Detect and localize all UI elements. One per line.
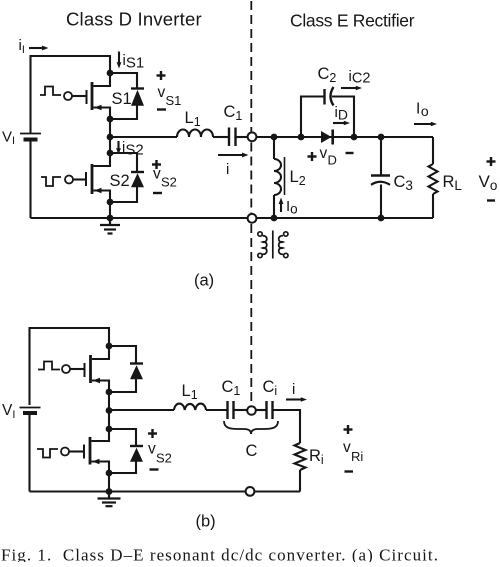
wire: L1 to C1 (b) [206,409,228,411]
arrow Io up (L2) [279,198,284,213]
transformer [258,231,288,259]
node circle: output bottom (a) [248,214,257,223]
wire: Ci to Ri corner (b) [273,410,301,443]
svg-text:v: v [153,166,161,183]
wire: Q1 source to Q2 drain (b) [108,392,110,429]
label Vo [479,172,498,193]
svg-text:i: i [292,381,295,398]
node circle: output top (a) [248,132,257,141]
svg-text:iC2: iC2 [349,68,371,87]
gate circle S1 [64,92,72,100]
svg-text:S1: S1 [166,93,182,108]
label vS1 [158,84,182,108]
label Io (top right) [416,101,429,120]
wire: main output rail (a) [256,136,433,138]
label vS2 [153,166,177,190]
inductor L1 (b) [174,404,206,410]
resistor Ri (b) [295,443,306,492]
label C1 (a) [224,103,243,123]
label vD [320,145,337,168]
node: ground junction (b) [106,488,113,495]
label Ri (b) [309,447,324,467]
wire: S1 source to mid node [109,119,111,153]
wire: bottom rail (b) [30,490,301,492]
gate circle Q1 (b) [62,365,70,373]
body diode of Q2 (b) [109,429,143,473]
brace C (b) [224,421,278,434]
wire: S2 source to ground rail [109,202,111,218]
wire: C2 branch [301,97,354,138]
label (b) [196,513,216,531]
label S1 [112,90,132,108]
diode D [321,130,333,145]
label L1 (a) [185,109,201,129]
label - of vS1 [157,108,166,110]
wire: gate lead S2 [73,178,86,180]
node: Q1 drain (b) [106,343,113,350]
transistor S1 [87,73,111,119]
gate circle S2 [65,176,73,184]
node: Q2 drain (b) [106,426,113,433]
label - of vRi (b) [345,470,354,472]
wire: gate lead Q1 (b) [70,368,85,370]
label i_I [19,37,25,56]
label Io (L2) [286,198,298,217]
node: S1 drain [107,70,114,77]
wire: bottom rail (a) [31,217,434,219]
node: C2 right [351,134,358,141]
svg-text:C: C [246,442,258,460]
svg-text:Io: Io [286,198,298,217]
svg-text:Ri: Ri [351,449,363,464]
svg-text:Fig. 1. Class D–E resonant dc: Fig. 1. Class D–E resonant dc/dc convert… [1,546,439,563]
wire: left rail lower (a) [29,142,31,219]
svg-text:S2: S2 [110,172,130,190]
label C1 (b) [222,378,241,398]
gate pulse S1 [40,87,61,96]
label - of vD [346,152,354,154]
svg-text:iS1: iS1 [123,52,145,72]
label + of vD [308,152,317,161]
arrow i (a) [218,153,249,158]
body diode of S2 [110,153,144,202]
wire: mid node to L1 (b) [109,409,174,411]
capacitor C1 (a) [229,128,236,147]
svg-text:Class E Rectifier: Class E Rectifier [290,11,415,31]
body diode of Q1 (b) [109,346,143,392]
label Ci (b) [263,378,278,398]
arrow i (b) [286,397,307,402]
arrow i_I [29,46,49,51]
node circle: output mid (b) [247,406,256,415]
svg-text:Io: Io [416,101,429,120]
wire: top rail (b) [30,328,110,405]
wire: L1 to C1 (a) [213,136,229,138]
node: Q1 source (b) [106,389,113,396]
label + of vRi (b) [344,425,353,434]
gate pulse Q1 (b) [38,362,60,370]
svg-text:S2: S2 [156,451,172,466]
arrow Io (top right) [414,122,437,127]
label i (a) [226,161,229,178]
label iS1 [123,52,145,72]
resistor RL [429,137,438,218]
transistor S2 [86,153,110,202]
node: S2 source [107,199,114,206]
node: S2 drain [107,150,114,157]
svg-text:v: v [148,441,156,458]
transistor Q1 (b) [85,346,110,392]
gate pulse S2 [41,177,61,186]
label S2 [110,172,130,190]
node: L2 top [271,134,278,141]
label iD [335,104,348,123]
wire: circle to Ci (b) [256,409,267,411]
battery V_I (a) [20,134,41,140]
svg-text:v: v [343,439,351,456]
inductor L1 (a) [177,130,213,137]
svg-text:S1: S1 [112,90,132,108]
label + of vS2 (b) [148,429,157,438]
dashed boundary line [250,1,252,404]
label RL [443,173,463,193]
label + of vS2 [152,160,161,169]
svg-text:(b): (b) [196,513,216,531]
label C2 [318,65,337,85]
label + of Vo [487,157,496,166]
label C (b) [246,442,258,460]
arrow iS1 [117,52,122,69]
wire: top rail (a) [31,56,111,133]
node: S1 source [107,116,114,123]
label - of vS2 [153,192,162,194]
label - of vS2 (b) [150,468,159,470]
node: Q2 source (b) [106,470,113,477]
label V_I (a) [2,129,15,148]
wire: gate lead S1 [72,95,87,97]
wire: gate lead Q2 (b) [69,450,84,452]
gate pulse Q2 (b) [37,449,58,458]
node: C3 bottom [378,215,385,222]
label iS2 [122,139,144,159]
inductor L2 [274,137,281,218]
label - of Vo [487,199,495,201]
svg-text:Class D Inverter: Class D Inverter [66,9,202,30]
label + of vS1 [157,71,166,80]
arrow iS2 [116,141,121,155]
transistor Q2 (b) [84,429,109,473]
gate circle Q2 (b) [61,448,69,456]
node: mid output (b) [106,407,113,414]
core line of L2 [284,157,286,195]
svg-text:i: i [226,161,229,178]
node: L2 bottom [271,215,278,222]
ground (b) [98,492,121,507]
label vRi (b) [343,439,363,464]
svg-text:v: v [320,145,328,162]
capacitor C2 [325,87,334,106]
svg-text:iD: iD [335,104,348,123]
capacitor Ci (b) [267,401,273,419]
svg-text:S2: S2 [161,175,177,190]
ground (a) [100,218,120,234]
node: C3 top [378,134,385,141]
capacitor C1 (b) [228,401,234,419]
wire: C1 to node circle (a) [236,136,248,138]
svg-text:v: v [158,84,166,101]
body diode of S1 [110,73,144,119]
label i (b) [292,381,295,398]
svg-text:D: D [328,153,337,168]
label C3 [394,173,413,193]
label L2 [290,168,306,188]
capacitor C3 [371,137,390,218]
label L1 (b) [182,382,198,402]
wire: mid node to L1 (a) [110,136,177,138]
label iC2 [349,68,371,87]
node: mid output (a) [107,134,114,141]
wire: left rail lower (b) [28,415,30,492]
node: ground junction (a) [107,215,114,222]
wire: Q2 source to ground rail (b) [108,473,110,492]
label (a) [194,272,214,290]
svg-text:(a): (a) [194,272,214,290]
label vS2 (b) [148,441,172,466]
arrow iD [333,121,350,126]
label V_I (b) [2,402,15,421]
battery V_I (b) [20,408,41,414]
svg-text:iS2: iS2 [122,139,144,159]
node circle: bottom rail (b) [246,487,255,496]
node: C2 left [298,134,305,141]
arrow iC2 [341,86,362,91]
wire: C1 to node circle (b) [234,409,248,411]
